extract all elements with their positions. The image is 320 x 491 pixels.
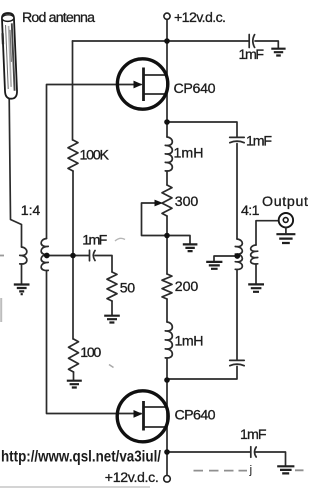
svg-text:CP640: CP640 <box>175 408 216 424</box>
svg-text:300: 300 <box>175 194 199 210</box>
svg-text:j: j <box>249 463 253 477</box>
svg-text:+12v.d.c.: +12v.d.c. <box>105 470 159 486</box>
svg-text:1mF: 1mF <box>82 233 107 249</box>
svg-text:4:1: 4:1 <box>241 203 260 219</box>
svg-text:http://www.qsl.net/va3iul/: http://www.qsl.net/va3iul/ <box>1 449 161 466</box>
svg-text:50: 50 <box>120 281 136 297</box>
svg-text:1mH: 1mH <box>175 334 204 350</box>
svg-text:Rod antenna: Rod antenna <box>22 10 95 26</box>
svg-text:100: 100 <box>80 345 101 361</box>
svg-text:CP640: CP640 <box>174 81 216 97</box>
svg-text:1mH: 1mH <box>174 146 204 162</box>
svg-text:200: 200 <box>175 279 199 295</box>
svg-text:1mF: 1mF <box>246 134 272 150</box>
svg-text:1mF: 1mF <box>240 427 267 443</box>
svg-text:+12v.d.c.: +12v.d.c. <box>174 10 226 26</box>
svg-text:1mF: 1mF <box>239 47 265 63</box>
svg-text:1:4: 1:4 <box>21 203 41 219</box>
svg-text:100K: 100K <box>80 148 110 164</box>
svg-text:Output: Output <box>262 194 308 210</box>
